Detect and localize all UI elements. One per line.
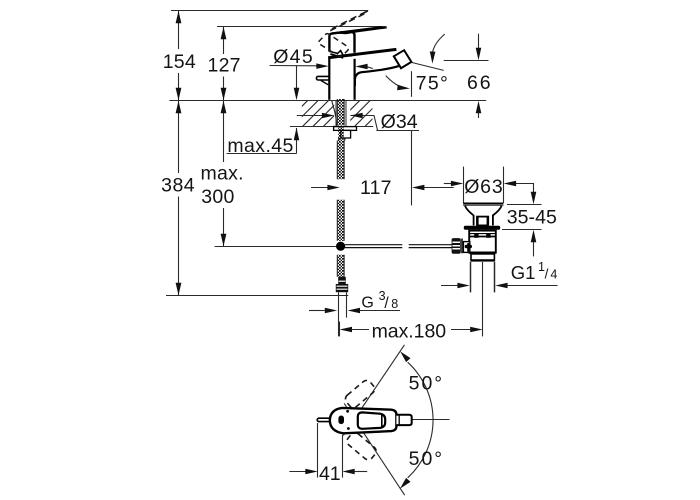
wire: 384 bottom reference line y=295.3 [166, 295, 348, 297]
lever solid base left+top [329, 32, 342, 51]
wire: deck bottom line y=126.4 [290, 126, 373, 128]
pop-up rod knob on body [316, 76, 328, 80]
lever solid base bottom notch [329, 51, 351, 56]
wire: rod reference line y=246.5 [215, 246, 336, 248]
svg-text:127: 127 [208, 55, 241, 77]
dimension max300 vertical line [223, 101, 225, 163]
svg-text:35-45: 35-45 [507, 206, 557, 228]
braid hose segment 2 [338, 200, 344, 241]
svg-text:/: / [545, 266, 549, 281]
svg-text:Ø34: Ø34 [381, 111, 418, 133]
svg-text:117: 117 [360, 177, 392, 199]
arc arrowhead bottom [400, 478, 411, 489]
drain tailpipe [471, 262, 495, 293]
svg-text:8: 8 [391, 297, 398, 311]
lever pivot diagonal [330, 54, 343, 58]
svg-text:41: 41 [319, 463, 341, 485]
top view drain knob pill [338, 416, 344, 425]
svg-text:Ø63: Ø63 [464, 176, 503, 198]
arc arrowhead top [400, 351, 410, 362]
top view small dots [346, 410, 349, 413]
faucet body left edge [328, 58, 330, 100]
hatching: deck cross-section [282, 100, 391, 126]
lever dashed raised base [319, 34, 349, 57]
svg-text:G1: G1 [511, 262, 536, 283]
braid shank in deck [338, 99, 344, 126]
drain body bottom heavy line [469, 251, 496, 253]
aerator [394, 50, 412, 68]
svg-text:4: 4 [550, 268, 557, 282]
lever dashed raised blade [330, 11, 367, 31]
arrowheads max300 [221, 101, 227, 113]
drain top rim double line [463, 202, 503, 204]
svg-text:/: / [384, 295, 389, 312]
lever solid blade [332, 27, 387, 34]
top view body outline [330, 408, 397, 433]
arrowheads 154 [176, 11, 227, 295]
braid visible through washer and nut [338, 127, 344, 141]
svg-text:max.180: max.180 [372, 321, 447, 343]
drain lower nut [471, 254, 494, 260]
dimension 154 vertical line x=178.4 [179, 11, 224, 296]
drain bayonet tabs [474, 234, 478, 238]
drain body [469, 231, 496, 253]
hose curve at deck [332, 101, 337, 127]
top view lever [358, 412, 385, 428]
G3/8 pipe stub lines [339, 292, 347, 336]
washer under deck [334, 127, 357, 131]
svg-text:75°: 75° [416, 72, 448, 94]
top view dashed handle upper [343, 378, 376, 409]
coupling screw [465, 245, 472, 248]
top view diagonal +50 [343, 345, 404, 436]
drain flange (black band) [464, 226, 500, 230]
top view rod stub [317, 418, 330, 421]
svg-text:Ø45: Ø45 [273, 46, 313, 68]
arrowheads 127 [221, 27, 227, 39]
svg-text:66: 66 [467, 72, 491, 94]
top view horizontal centerline [412, 419, 450, 421]
top view diagonal -50 [344, 403, 405, 495]
dimension 127 vertical line x=223.4 [223, 27, 225, 55]
svg-text:154: 154 [163, 51, 196, 73]
svg-text:50°: 50° [409, 448, 443, 470]
svg-text:384: 384 [161, 174, 195, 196]
wire: reference line y=26.4 (127 top) [217, 26, 387, 28]
top view swivel arc [408, 362, 433, 478]
drain funnel taper [465, 206, 474, 226]
mounting nut [341, 130, 351, 138]
top view spout snout [396, 415, 411, 425]
faucet body front edge [354, 59, 356, 100]
svg-text:50°: 50° [409, 372, 443, 394]
rod coupling knurled nut [452, 238, 461, 254]
G3/8 hose end nut [338, 277, 346, 284]
drain lift knob [477, 217, 488, 226]
faucet spout underside curve [355, 66, 400, 86]
faucet spout top heavy edge [328, 49, 396, 57]
arrowheads 384 [176, 101, 182, 113]
shank edges through deck [336, 100, 346, 126]
lever solid base right side [350, 31, 355, 52]
svg-text:G: G [361, 294, 373, 311]
svg-text:300: 300 [201, 186, 234, 208]
junction ball on pop-up rod [336, 242, 345, 251]
wire: deck top line y=100 [169, 100, 486, 102]
svg-text:max.: max. [201, 162, 244, 184]
dimension 384 vertical line [178, 101, 180, 174]
pop-up rod left-right of ball [345, 245, 402, 248]
rod coupling block [463, 242, 469, 253]
braid hose segment 3 [338, 255, 344, 277]
drain body double lines [469, 233, 496, 235]
wire: top reference line y=10.5 (154 top) [166, 11, 486, 296]
top view dashed handle lower [345, 431, 378, 462]
braid hose segment 1 [338, 141, 344, 180]
